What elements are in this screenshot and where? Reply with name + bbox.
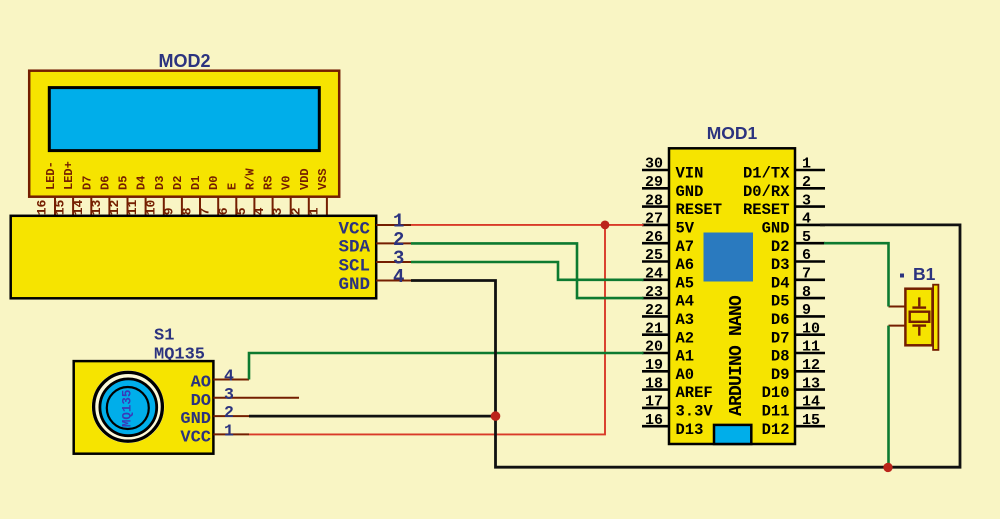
svg-text:R/W: R/W <box>243 168 257 190</box>
wire VCC red: backpack pin1 to Arduino 5V <box>411 224 644 226</box>
svg-text:12: 12 <box>802 357 820 374</box>
svg-text:1: 1 <box>224 421 234 440</box>
svg-text:18: 18 <box>645 375 663 392</box>
svg-text:17: 17 <box>645 394 663 411</box>
Arduino left pin stubs <box>642 170 669 426</box>
buzzer B1 body <box>905 289 932 346</box>
sensor pale backing disc <box>92 371 165 444</box>
backpack pin labels VCC SDA SCL GND <box>338 219 370 294</box>
Arduino right pin numbers 1..15 <box>802 156 820 429</box>
svg-text:D1: D1 <box>189 176 203 190</box>
svg-text:VIN: VIN <box>676 165 704 183</box>
svg-text:SDA: SDA <box>338 238 370 258</box>
sensor pin stubs <box>213 380 299 435</box>
svg-text:D0/RX: D0/RX <box>743 183 790 201</box>
buzzer side bar <box>933 285 938 350</box>
svg-text:RESET: RESET <box>676 201 723 219</box>
LCD pins 16..1 (wires to backpack) <box>55 197 327 216</box>
svg-text:5V: 5V <box>676 220 695 238</box>
svg-text:1: 1 <box>802 156 811 173</box>
wire AO green: sensor AO to Arduino A1 <box>249 353 644 380</box>
label B1 dot <box>900 274 904 278</box>
svg-text:VDD: VDD <box>298 168 312 190</box>
svg-text:VCC: VCC <box>338 219 370 239</box>
LCD pin numbers 16..1 (rotated) <box>35 199 322 215</box>
svg-text:3: 3 <box>224 385 234 404</box>
sensor cyan disc with ring <box>100 379 157 436</box>
svg-text:25: 25 <box>645 247 663 264</box>
svg-text:14: 14 <box>71 199 86 215</box>
svg-text:9: 9 <box>161 207 176 215</box>
svg-text:D7: D7 <box>771 329 790 347</box>
svg-text:D1/TX: D1/TX <box>743 165 790 183</box>
junction dot sensor GND <box>491 411 501 421</box>
svg-text:ARDUINO NANO: ARDUINO NANO <box>727 295 747 416</box>
svg-text:VSS: VSS <box>316 168 330 190</box>
svg-text:22: 22 <box>645 302 663 319</box>
wire green: buzzer bottom pin to GND rail <box>887 326 890 468</box>
svg-text:2: 2 <box>288 207 303 215</box>
svg-text:A0: A0 <box>676 366 695 384</box>
svg-text:3.3V: 3.3V <box>676 403 714 421</box>
svg-text:19: 19 <box>645 357 663 374</box>
svg-text:28: 28 <box>645 192 663 209</box>
LCD pin labels LED- to VSS (rotated) <box>44 161 330 190</box>
svg-text:A2: A2 <box>676 329 695 347</box>
svg-text:3: 3 <box>270 207 285 215</box>
svg-text:7: 7 <box>802 266 811 283</box>
LCD module MOD2 body <box>29 71 339 197</box>
svg-text:RESET: RESET <box>743 201 790 219</box>
svg-text:14: 14 <box>802 394 820 411</box>
wire SCL green: backpack pin3 to Arduino A5 <box>411 262 644 280</box>
svg-text:D6: D6 <box>771 311 790 329</box>
svg-text:DO: DO <box>191 392 211 411</box>
svg-text:D3: D3 <box>771 256 790 274</box>
sensor outer ring <box>94 372 163 441</box>
svg-text:VCC: VCC <box>180 428 211 447</box>
svg-text:10: 10 <box>143 199 158 215</box>
sensor S1 body <box>74 361 214 454</box>
svg-text:1: 1 <box>306 207 321 215</box>
svg-text:D2: D2 <box>171 176 185 190</box>
svg-text:24: 24 <box>645 266 663 283</box>
svg-text:8: 8 <box>180 207 195 215</box>
wire red vertical: junction to sensor VCC <box>249 225 605 435</box>
svg-text:3: 3 <box>802 192 811 209</box>
svg-text:GND: GND <box>762 220 790 238</box>
svg-text:D5: D5 <box>117 176 131 190</box>
svg-text:D12: D12 <box>762 421 790 439</box>
svg-text:B1: B1 <box>913 264 936 284</box>
svg-text:AREF: AREF <box>676 384 713 402</box>
Arduino right pin labels <box>743 165 790 439</box>
buzzer pin stubs <box>889 307 906 326</box>
buzzer inner symbol <box>910 297 930 335</box>
svg-text:MOD1: MOD1 <box>707 123 758 143</box>
svg-text:D7: D7 <box>80 176 94 190</box>
svg-text:11: 11 <box>125 199 140 215</box>
svg-text:D2: D2 <box>771 238 790 256</box>
svg-text:11: 11 <box>802 339 820 356</box>
svg-text:D4: D4 <box>771 274 790 292</box>
Arduino USB connector (cyan) <box>714 425 751 444</box>
svg-text:LED-: LED- <box>44 161 58 190</box>
LCD screen <box>49 88 319 151</box>
svg-text:AO: AO <box>191 374 211 393</box>
svg-text:E: E <box>225 183 239 190</box>
Arduino left pin labels <box>676 165 723 439</box>
svg-text:4: 4 <box>252 207 267 215</box>
Arduino blue IC square <box>704 233 754 282</box>
sensor inner ring <box>107 387 149 429</box>
svg-text:15: 15 <box>802 412 820 429</box>
svg-text:7: 7 <box>198 207 213 215</box>
wire D2 green: Arduino D2 to buzzer top pin <box>824 243 889 306</box>
svg-text:GND: GND <box>676 183 704 201</box>
svg-text:MQ135: MQ135 <box>121 390 135 428</box>
svg-text:A6: A6 <box>676 256 695 274</box>
junction dot at 5V line <box>601 221 610 230</box>
svg-text:13: 13 <box>89 199 104 215</box>
wire sensor GND black <box>249 415 496 418</box>
svg-text:16: 16 <box>645 412 663 429</box>
svg-text:6: 6 <box>216 207 231 215</box>
svg-text:4: 4 <box>224 367 234 386</box>
svg-text:D9: D9 <box>771 366 790 384</box>
Arduino left pin numbers 30..16 <box>645 156 663 429</box>
sensor pin numbers 4 3 2 1 <box>224 367 234 441</box>
sensor pin labels AO DO GND VCC <box>180 374 211 448</box>
svg-text:29: 29 <box>645 174 663 191</box>
backpack pin stubs 1-4 <box>376 225 411 281</box>
svg-text:6: 6 <box>802 247 811 264</box>
svg-text:9: 9 <box>802 302 811 319</box>
svg-text:8: 8 <box>802 284 811 301</box>
Arduino right pin stubs <box>795 170 825 426</box>
svg-text:A4: A4 <box>676 293 695 311</box>
svg-text:5: 5 <box>234 207 249 215</box>
Arduino Nano MOD1 body <box>669 148 795 444</box>
svg-text:30: 30 <box>645 156 663 173</box>
svg-text:2: 2 <box>224 403 234 422</box>
svg-text:D10: D10 <box>762 384 790 402</box>
svg-text:23: 23 <box>645 284 663 301</box>
svg-text:21: 21 <box>645 320 663 337</box>
svg-text:V0: V0 <box>280 176 294 190</box>
svg-text:12: 12 <box>107 199 122 215</box>
svg-text:GND: GND <box>180 410 211 429</box>
svg-text:RS: RS <box>262 176 276 190</box>
I2C backpack module body <box>11 216 377 298</box>
svg-text:D0: D0 <box>207 176 221 190</box>
svg-text:4: 4 <box>393 266 404 288</box>
wire GND black: backpack pin4 down and around to Arduino GND <box>411 225 960 467</box>
svg-text:SCL: SCL <box>338 256 370 276</box>
svg-text:10: 10 <box>802 320 820 337</box>
svg-text:26: 26 <box>645 229 663 246</box>
svg-text:16: 16 <box>35 199 50 215</box>
svg-text:2: 2 <box>802 174 811 191</box>
backpack pin numbers 1-4 <box>393 211 404 289</box>
svg-text:13: 13 <box>802 375 820 392</box>
svg-text:5: 5 <box>802 229 811 246</box>
sensor S1 MQ135 labels <box>154 327 205 365</box>
wire SDA green: backpack pin2 to Arduino A4 <box>411 243 644 298</box>
svg-text:D4: D4 <box>135 176 149 190</box>
svg-text:D11: D11 <box>762 403 790 421</box>
svg-text:D13: D13 <box>676 421 704 439</box>
svg-text:D6: D6 <box>98 176 112 190</box>
svg-text:A7: A7 <box>676 238 695 256</box>
svg-text:20: 20 <box>645 339 663 356</box>
svg-text:A1: A1 <box>676 348 695 366</box>
svg-text:15: 15 <box>53 199 68 215</box>
svg-text:S1: S1 <box>154 327 174 346</box>
svg-text:D8: D8 <box>771 348 790 366</box>
svg-text:A3: A3 <box>676 311 695 329</box>
svg-text:MOD2: MOD2 <box>158 51 210 71</box>
svg-text:LED+: LED+ <box>62 161 76 190</box>
junction dot buzzer GND <box>883 463 892 472</box>
svg-text:D5: D5 <box>771 293 790 311</box>
svg-text:27: 27 <box>645 211 663 228</box>
svg-text:A5: A5 <box>676 274 695 292</box>
svg-text:D3: D3 <box>153 176 167 190</box>
svg-text:4: 4 <box>802 211 811 228</box>
svg-text:GND: GND <box>338 275 370 295</box>
